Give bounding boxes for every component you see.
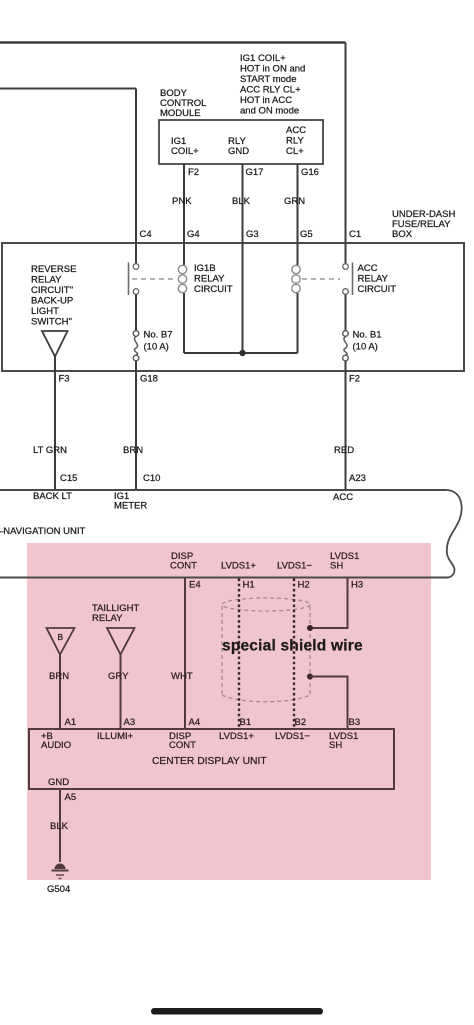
svg-text:No. B7: No. B7: [144, 330, 173, 341]
svg-text:BLK: BLK: [232, 196, 251, 207]
svg-text:PNK: PNK: [172, 196, 192, 207]
navigation unit bottom edge: [0, 577, 448, 579]
svg-text:G5: G5: [300, 229, 313, 240]
svg-text:RLY: RLY: [286, 136, 304, 147]
svg-text:CENTER DISPLAY UNIT: CENTER DISPLAY UNIT: [152, 756, 267, 767]
wire G3 ground leg: [242, 243, 244, 353]
svg-text:LVDS1−: LVDS1−: [275, 731, 310, 742]
svg-text:C4: C4: [140, 229, 152, 240]
svg-text:H1: H1: [243, 580, 255, 591]
svg-text:C15: C15: [60, 473, 77, 484]
svg-text:RELAY: RELAY: [358, 274, 389, 285]
box center display unit: [29, 729, 394, 789]
shield dashed left edge: [221, 606, 223, 695]
wire F2 PNK: [183, 164, 185, 243]
label ACC RELAY CIRCUIT: [358, 263, 397, 295]
wire H2 dotted LVDS1-: [293, 579, 295, 730]
svg-text:BOX: BOX: [392, 229, 413, 240]
svg-text:IG1 COIL+: IG1 COIL+: [240, 53, 286, 64]
wire G17 BLK: [242, 164, 244, 243]
wire A5 BLK: [59, 789, 61, 862]
svg-text:CIRCUIT: CIRCUIT: [358, 284, 397, 295]
ground G504: [52, 864, 69, 879]
wire coil common link: [184, 352, 298, 354]
svg-text:ILLUMI+: ILLUMI+: [97, 731, 134, 742]
relay contact IG1B (C4 side): [129, 243, 139, 331]
svg-text:SH: SH: [330, 561, 343, 572]
wire G18 to connector: [135, 371, 137, 490]
svg-text:G3: G3: [246, 229, 259, 240]
wire E4 WHT: [184, 579, 186, 730]
navigation unit torn right edge: [446, 490, 462, 578]
junction shield lower: [307, 674, 313, 680]
svg-text:–NAVIGATION UNIT: –NAVIGATION UNIT: [0, 526, 85, 537]
junction G3/coils: [239, 350, 245, 356]
svg-text:G4: G4: [187, 229, 200, 240]
svg-text:HOT in ACC: HOT in ACC: [240, 95, 292, 106]
svg-text:IG1B: IG1B: [194, 263, 216, 274]
svg-text:RELAY: RELAY: [194, 274, 225, 285]
svg-text:LIGHT: LIGHT: [31, 306, 59, 317]
diode/arrow symbol taillight relay: [107, 628, 135, 655]
svg-text:CIRCUIT: CIRCUIT: [194, 284, 233, 295]
shield dashed cylinder top: [222, 598, 310, 611]
relay coil IG1B (G4 side): [178, 243, 186, 353]
svg-text:LVDS1+: LVDS1+: [219, 731, 254, 742]
relay contact ACC (C1 side): [343, 243, 353, 331]
svg-text:F2: F2: [188, 167, 199, 178]
svg-text:SWITCH'': SWITCH'': [31, 317, 72, 328]
svg-text:LVDS1+: LVDS1+: [221, 561, 256, 572]
wire G16 GRN: [297, 164, 299, 243]
shield dashed bottom arc: [222, 695, 310, 702]
svg-text:G17: G17: [246, 167, 264, 178]
label BODY CONTROL MODULE: [160, 88, 206, 119]
wire H1 dotted LVDS1+: [238, 579, 240, 730]
svg-text:BRN: BRN: [49, 671, 69, 682]
navigation unit top edge: [0, 489, 446, 491]
svg-text:CONT: CONT: [169, 740, 196, 751]
svg-text:METER: METER: [114, 501, 147, 512]
wire F2 to connector: [345, 371, 347, 490]
svg-text:No. B1: No. B1: [353, 330, 382, 341]
diode/arrow symbol B: [47, 628, 75, 655]
dashed relay link IG1B: [132, 278, 176, 280]
wire F3 inside box: [54, 357, 56, 372]
box under-dash fuse/relay: [2, 243, 464, 371]
svg-text:BACK-UP: BACK-UP: [31, 296, 73, 307]
svg-text:AUDIO: AUDIO: [41, 740, 71, 751]
svg-text:H2: H2: [298, 580, 310, 591]
svg-text:A4: A4: [189, 717, 201, 728]
svg-text:ACC: ACC: [358, 263, 378, 274]
diode/arrow symbol reverse relay: [42, 331, 68, 357]
svg-text:ACC: ACC: [333, 492, 353, 503]
svg-text:GRN: GRN: [284, 196, 305, 207]
svg-text:RELAY: RELAY: [92, 613, 123, 624]
shield dashed right edge: [309, 606, 311, 695]
svg-text:WHT: WHT: [171, 671, 193, 682]
wire F3 to connector: [54, 371, 56, 490]
highlight pink region: [27, 543, 431, 880]
svg-text:A1: A1: [65, 717, 77, 728]
wire A3 GRY: [120, 655, 122, 730]
svg-text:B1: B1: [240, 717, 252, 728]
wire C4 feed horizontal: [0, 88, 136, 90]
svg-text:MODULE: MODULE: [160, 108, 201, 119]
svg-text:START mode: START mode: [240, 74, 297, 85]
label UNDER-DASH FUSE/RELAY BOX: [392, 209, 455, 240]
svg-text:RED: RED: [334, 445, 354, 456]
svg-text:(10 A): (10 A): [353, 342, 378, 353]
svg-text:CL+: CL+: [286, 146, 304, 157]
wire top feed bus: [0, 41, 346, 43]
svg-text:E4: E4: [189, 580, 201, 591]
svg-text:BACK LT: BACK LT: [33, 491, 72, 502]
svg-text:REVERSE: REVERSE: [31, 264, 76, 275]
label IG1B RELAY CIRCUIT: [194, 263, 233, 295]
relay coil ACC (G5 side): [292, 243, 300, 353]
svg-text:GND: GND: [228, 146, 249, 157]
svg-text:special shield wire: special shield wire: [222, 638, 363, 655]
svg-text:ACC: ACC: [286, 125, 306, 136]
svg-text:COIL+: COIL+: [171, 146, 199, 157]
svg-text:RELAY: RELAY: [31, 275, 62, 286]
wire C4 feed vertical: [135, 89, 137, 244]
dashed relay link ACC: [302, 278, 340, 280]
svg-text:H3: H3: [351, 580, 363, 591]
svg-text:LT GRN: LT GRN: [33, 445, 67, 456]
note IG1 COIL+ hot modes: [240, 53, 305, 117]
svg-text:B2: B2: [295, 717, 307, 728]
svg-text:and ON mode: and ON mode: [240, 106, 299, 117]
svg-text:A3: A3: [124, 717, 136, 728]
svg-text:A5: A5: [65, 792, 77, 803]
wire B3 shield lower: [310, 677, 348, 730]
svg-text:C10: C10: [143, 473, 160, 484]
svg-text:GND: GND: [48, 777, 69, 788]
box body control module U1: [159, 120, 323, 164]
svg-text:LVDS1−: LVDS1−: [277, 561, 312, 572]
svg-text:BRN: BRN: [123, 445, 143, 456]
svg-text:G18: G18: [140, 374, 158, 385]
svg-text:B3: B3: [349, 717, 361, 728]
svg-text:B: B: [58, 632, 64, 642]
svg-text:(10 A): (10 A): [144, 342, 169, 353]
wire A1 BRN: [59, 655, 61, 730]
svg-text:ACC RLY CL+: ACC RLY CL+: [240, 85, 301, 96]
wire H3 shield upper: [310, 579, 348, 629]
svg-text:SH: SH: [329, 740, 342, 751]
junction shield upper: [307, 625, 313, 631]
svg-text:C1: C1: [349, 229, 361, 240]
svg-text:GRY: GRY: [108, 671, 129, 682]
svg-text:CONT: CONT: [170, 561, 197, 572]
wire C1 feed vertical: [345, 43, 347, 244]
fuse No. B7 10A: [133, 331, 139, 371]
home indicator bar: [151, 1008, 323, 1015]
svg-text:A23: A23: [349, 473, 366, 484]
svg-text:G504: G504: [47, 884, 70, 895]
label REVERSE RELAY CIRCUIT BACK-UP LIGHT SWITCH: [31, 264, 76, 328]
svg-text:F3: F3: [59, 374, 70, 385]
svg-text:HOT in ON and: HOT in ON and: [240, 64, 305, 75]
svg-text:CIRCUIT'': CIRCUIT'': [31, 285, 73, 296]
svg-text:F2: F2: [349, 374, 360, 385]
fuse No. B1 10A: [343, 331, 349, 371]
svg-text:BLK: BLK: [50, 821, 69, 832]
svg-text:G16: G16: [301, 167, 319, 178]
